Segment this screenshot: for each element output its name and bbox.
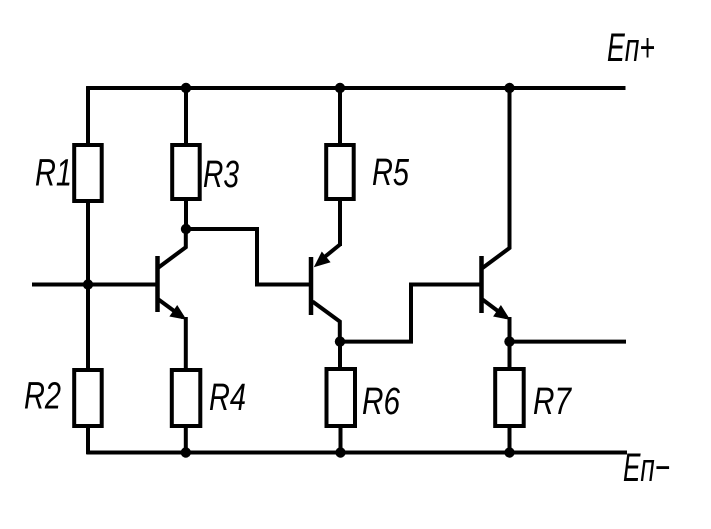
wire input line [32, 283, 156, 287]
svg-text:R3: R3 [203, 154, 239, 196]
resistor R1 [74, 145, 102, 201]
node rail/R3 [181, 83, 191, 93]
node R6/rail [335, 447, 345, 457]
wire R7 bottom to rail [508, 426, 512, 454]
svg-text:Eп+: Eп+ [607, 26, 655, 70]
svg-text:R4: R4 [209, 377, 246, 419]
node rail/R5 [335, 83, 345, 93]
wire left column top (rail to R1) [86, 86, 90, 145]
svg-text:R1: R1 [35, 153, 72, 195]
wire rail to R5 [338, 88, 342, 145]
node R7/rail [504, 447, 514, 457]
wire bottom supply rail En- [86, 451, 627, 455]
wire output [510, 340, 627, 344]
resistor R3 [172, 145, 200, 199]
wire R1 bottom to R2 top [86, 201, 90, 370]
node input junction [83, 279, 93, 289]
transistor VT3 [482, 88, 511, 342]
node R3/VT1 collector [181, 224, 191, 234]
wire node to R7 [508, 342, 512, 370]
resistor R2 [74, 370, 102, 426]
wire top supply rail En+ [86, 86, 625, 90]
node VT2 collector/R6 [335, 336, 345, 346]
wire node to R6 [338, 342, 342, 370]
transistor VT2 [311, 245, 340, 343]
resistor R4 [172, 370, 201, 426]
resistor R6 [327, 369, 356, 426]
node R4/rail [181, 447, 191, 457]
node VT3 emitter/output [504, 336, 514, 346]
wire R5 bottom to VT2 emitter [338, 199, 342, 246]
wire rail to R3 [184, 88, 188, 145]
wire VT1 collector to VT2 base (step) [186, 229, 311, 285]
resistor R7 [495, 369, 524, 426]
svg-text:R6: R6 [362, 381, 401, 423]
transistor VT1 [158, 229, 187, 371]
wire R6 bottom to rail [339, 426, 343, 454]
wire R2 bottom to rail [86, 426, 90, 454]
svg-text:R2: R2 [24, 376, 61, 418]
wire R3 bottom to collector node [184, 199, 188, 229]
wire R4 bottom to rail [184, 426, 188, 454]
svg-text:R7: R7 [533, 381, 572, 423]
node VT3 collector/rail [504, 83, 514, 93]
svg-text:R5: R5 [372, 152, 410, 194]
wire VT2 collector to VT3 base (step) [340, 285, 481, 342]
svg-text:Eп−: Eп− [623, 446, 670, 490]
resistor R5 [326, 145, 354, 199]
